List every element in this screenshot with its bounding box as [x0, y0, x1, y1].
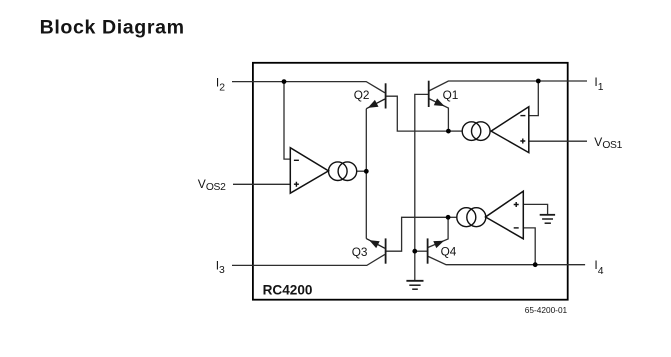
- wire: Q3 collector to terminal I3: [232, 254, 385, 265]
- ground symbol (U3 non-inverting input): [540, 215, 555, 223]
- wire: Q1 emitter down to node: [429, 99, 449, 132]
- svg-text:I4: I4: [594, 258, 603, 277]
- wire: Q1 collector to terminal I1: [429, 81, 587, 91]
- wire: I2 node down to op-amp U1 inverting input: [284, 82, 290, 160]
- svg-text:Q2: Q2: [354, 88, 370, 102]
- wire: Q4 base to ground node: [415, 250, 428, 252]
- ground symbol (center, Q1/Q4 base): [406, 281, 423, 289]
- svg-text:VOS1: VOS1: [594, 135, 622, 151]
- transistor Q2 base bar: [385, 83, 387, 108]
- svg-text:Q3: Q3: [352, 245, 368, 259]
- wire: U3 non-inverting input to ground: [523, 204, 547, 214]
- wire: terminal VOS2 lead to U1 non-inverting input: [233, 183, 290, 185]
- current source CS2: [462, 122, 490, 141]
- wire: U1 output to emitter rail node: [357, 170, 367, 172]
- transistor Q4 base bar: [427, 238, 429, 263]
- transistor Q3 emitter with arrow: [366, 239, 385, 249]
- wire: Q2 base to Q1 emitter node: [386, 96, 449, 131]
- svg-text:Q4: Q4: [441, 244, 457, 258]
- current source CS3: [457, 208, 486, 227]
- current source CS1: [329, 162, 357, 181]
- wire: terminal I2 lead into Q2 collector: [232, 82, 385, 93]
- op-amp U2 (VOS1 amplifier): [491, 107, 529, 153]
- IC boundary box: [253, 63, 568, 300]
- node: Q4 emitter / Q3 base junction: [446, 215, 451, 220]
- transistor Q1 base bar: [428, 81, 430, 107]
- wire: U3 inverting input down to I4 line: [523, 228, 535, 265]
- node: I1 feedback junction: [536, 79, 541, 84]
- wire: Q4 collector to terminal I4: [428, 256, 585, 265]
- transistor Q2 emitter with arrow: [366, 99, 385, 109]
- wire: Q4 emitter up to node: [428, 217, 449, 247]
- op-amp U3 (output amplifier): [486, 191, 524, 239]
- wire: CS2 to Q1 emitter node: [448, 130, 462, 132]
- wire: CS3 to Q4 emitter node: [448, 216, 457, 218]
- svg-text:RC4200: RC4200: [263, 283, 313, 298]
- node: I2 junction: [282, 79, 287, 84]
- svg-text:VOS2: VOS2: [198, 177, 226, 193]
- svg-text:I2: I2: [216, 75, 225, 93]
- wire: U2 non-inverting input to terminal VOS1: [529, 140, 587, 142]
- wire: ground stem center: [414, 251, 416, 281]
- node: U1 output / emitter rail junction: [364, 169, 369, 174]
- svg-text:I1: I1: [594, 75, 603, 93]
- svg-text:I3: I3: [216, 258, 225, 276]
- transistor Q3 base bar: [385, 238, 387, 263]
- transistor Q1 emitter arrowhead: [434, 98, 445, 106]
- wire: Q1 base down to Q4 base node: [415, 94, 429, 251]
- svg-text:Block Diagram: Block Diagram: [40, 17, 185, 39]
- node: I4 / U3 inverting input junction: [533, 262, 538, 267]
- node: Q1 emitter / Q2 base junction: [446, 129, 451, 134]
- op-amp U1 (VOS2 amplifier): [290, 148, 328, 194]
- transistor Q4 emitter arrowhead: [433, 241, 444, 248]
- wire: I1 feedback to U2 inverting input: [529, 81, 539, 116]
- svg-text:Q1: Q1: [443, 88, 459, 102]
- wire: common emitter rail Q2-Q3: [365, 109, 367, 239]
- svg-text:65-4200-01: 65-4200-01: [525, 305, 568, 315]
- node: Q4 base / ground junction: [412, 249, 417, 254]
- wire: Q3 base to Q4 emitter node: [386, 217, 449, 251]
